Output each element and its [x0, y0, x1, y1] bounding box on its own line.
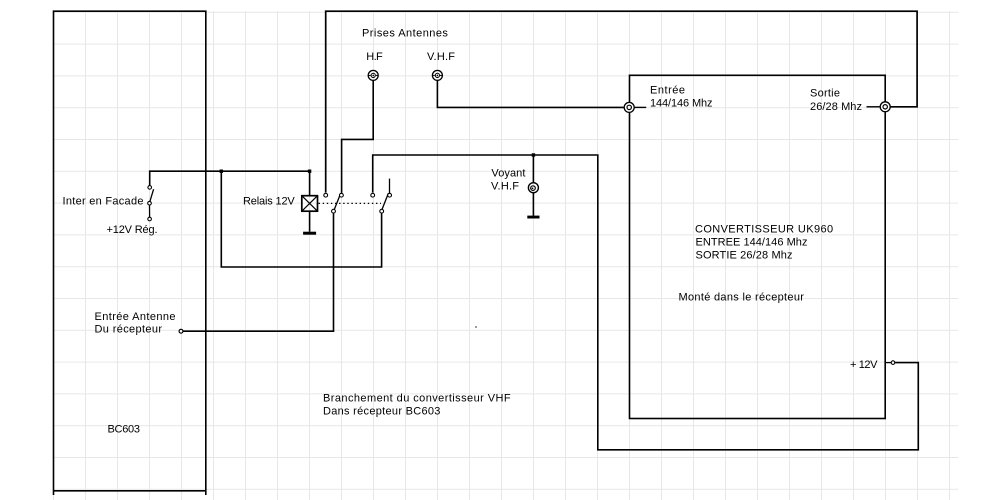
antenna jack V.H.F	[432, 70, 442, 80]
svg-text:Relais 12V: Relais 12V	[243, 195, 295, 207]
dotted mechanical link relay to contacts	[319, 202, 381, 204]
BC603 receiver outline box	[54, 11, 206, 495]
label Entrée Antenne Du récepteur	[95, 311, 176, 336]
label Sortie 26/28 Mhz	[810, 88, 862, 114]
svg-text:Du récepteur: Du récepteur	[95, 324, 163, 336]
converter UK960 box	[630, 75, 886, 418]
switch Inter en Facade	[148, 186, 154, 221]
svg-text:Branchement du convertisseur V: Branchement du convertisseur VHF	[323, 393, 511, 405]
svg-text:V.H.F: V.H.F	[427, 51, 455, 63]
svg-text:ENTREE 144/146 Mhz: ENTREE 144/146 Mhz	[696, 236, 808, 248]
label Voyant V.H.F	[491, 167, 525, 192]
junction node voyant	[532, 153, 535, 156]
svg-text:Sortie: Sortie	[810, 88, 840, 100]
junction node at relay coil	[308, 170, 311, 173]
converter output connector Sortie	[867, 102, 891, 112]
ground under voyant lamp	[527, 216, 539, 219]
svg-text:144/146 Mhz: 144/146 Mhz	[650, 98, 712, 110]
wire from switch 2 to voyant line and +12V of converter	[373, 155, 919, 450]
wire from lamp to ground	[532, 193, 534, 216]
svg-text:Voyant: Voyant	[491, 167, 525, 179]
wire from switch 1 moving contact to receiver antenna input	[183, 213, 334, 331]
+12V terminal circle	[885, 361, 895, 365]
relay contact switch 2	[371, 179, 392, 214]
svg-text:BC603: BC603	[108, 424, 140, 436]
svg-text:CONVERTISSEUR UK960: CONVERTISSEUR UK960	[695, 223, 833, 235]
svg-text:+12V Rég.: +12V Rég.	[107, 224, 158, 236]
svg-text:Entrée: Entrée	[650, 84, 686, 96]
svg-text:SORTIE 26/28 Mhz: SORTIE 26/28 Mhz	[696, 250, 793, 262]
wire relay coil to ground	[309, 212, 311, 232]
converter input connector Entrée	[624, 102, 646, 112]
svg-text:26/28 Mhz: 26/28 Mhz	[810, 101, 862, 113]
wire from +12V switch feed to relay coil	[150, 171, 310, 195]
svg-text:+ 12V: + 12V	[850, 359, 878, 371]
relay contact switch 1	[324, 193, 343, 213]
relay coil box	[302, 196, 318, 212]
svg-text:Inter en Facade: Inter en Facade	[63, 195, 144, 207]
receiver antenna input terminal	[179, 329, 183, 333]
stray ink dot	[475, 326, 477, 328]
label CONVERTISSEUR UK960	[695, 223, 833, 261]
label Branchement du convertisseur VHF Dans récepteur BC603	[323, 393, 511, 418]
label Entrée 144/146 Mhz	[650, 84, 712, 109]
svg-text:V.H.F: V.H.F	[491, 180, 519, 192]
svg-text:H.F: H.F	[366, 51, 383, 63]
wire from V.H.F jack to converter input	[437, 81, 623, 108]
junction node at loop tap	[220, 170, 223, 173]
wire loop from tap to switch 2 moving contact	[221, 171, 381, 267]
antenna jack H.F	[368, 70, 378, 80]
ground under relay coil	[303, 232, 316, 235]
voyant lamp	[528, 183, 538, 193]
svg-text:Prises Antennes: Prises Antennes	[362, 28, 448, 40]
svg-text:Entrée Antenne: Entrée Antenne	[95, 311, 176, 323]
svg-text:Dans récepteur BC603: Dans récepteur BC603	[323, 406, 441, 418]
svg-text:Monté dans le récepteur: Monté dans le récepteur	[679, 292, 805, 304]
wire from H.F jack down to relay contact	[342, 81, 374, 193]
wire down to voyant lamp	[532, 155, 534, 183]
wire from relay contact 1 up over the top to converter output	[326, 11, 917, 192]
